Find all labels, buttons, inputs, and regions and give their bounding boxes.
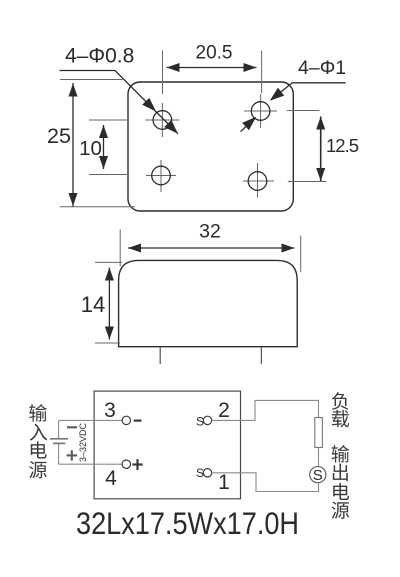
terminal 4 circle (122, 460, 130, 468)
terminal 3 circle (122, 416, 130, 424)
hole bottom-right crosshair (243, 163, 274, 198)
svg-text:32: 32 (199, 221, 221, 243)
dim 25 extension lines (60, 80, 135, 207)
label shuru-4 char 源 (29, 461, 47, 478)
battery plate short (53, 442, 65, 444)
hole top-left crosshair (146, 103, 180, 137)
svg-text:25: 25 (47, 124, 71, 148)
relay schematic box (94, 391, 240, 499)
svg-text:4: 4 (105, 467, 117, 490)
dim 12.5 extension lines (287, 111, 326, 182)
label shuchu-4 char 源 (332, 502, 350, 519)
load resistor (315, 418, 323, 448)
label shuchu-1 char 输 (332, 445, 350, 463)
label shuru-2 char 入 (30, 424, 48, 441)
svg-text:32Lx17.5Wx17.0H: 32Lx17.5Wx17.0H (76, 506, 299, 541)
wire S circle to terminal1 (212, 473, 319, 492)
label shuchu-2 char 出 (333, 464, 348, 481)
pin left (159, 347, 161, 364)
svg-text:3: 3 (104, 399, 116, 422)
leader for 4-phi0.8 (60, 71, 179, 134)
battery minus sign (67, 426, 77, 428)
label shuchu-3 char 电 (333, 483, 349, 500)
leader for 4-phi1 (272, 83, 346, 100)
label fuzai-1 char 负 (332, 392, 348, 409)
svg-text:S: S (196, 466, 204, 480)
output loop wires (212, 400, 319, 491)
svg-text:2: 2 (218, 399, 230, 422)
svg-text:20.5: 20.5 (196, 43, 233, 64)
svg-text:4–Φ0.8: 4–Φ0.8 (65, 45, 134, 68)
hole bottom-left crosshair (146, 160, 176, 192)
terminal 3 minus (134, 420, 142, 422)
svg-text:1: 1 (218, 471, 230, 494)
hole bottom-right (248, 172, 267, 191)
hole top-right crosshair (244, 94, 277, 128)
svg-text:3–32VDC: 3–32VDC (78, 422, 88, 462)
label shuru-3 char 电 (31, 441, 47, 458)
dim 20.5 extension lines (163, 51, 262, 94)
dim 32 line (128, 247, 295, 249)
hole top-right (251, 102, 270, 121)
terminal 4 plus (132, 459, 142, 470)
svg-text:4–Φ1: 4–Φ1 (298, 57, 346, 79)
pin right (260, 347, 262, 364)
svg-text:S: S (196, 414, 204, 428)
dim 32 extension lines (120, 229, 301, 272)
battery wire bottom (58, 444, 60, 464)
svg-text:S: S (313, 467, 323, 484)
relay body top-view outline (128, 82, 293, 211)
terminal 2 circle (203, 416, 211, 424)
dim 14 extension lines (95, 262, 122, 343)
battery wire top (58, 420, 60, 438)
inner pointer arrow for 4-phi1 (241, 121, 253, 132)
relay body side-view outline (119, 260, 298, 346)
svg-text:10: 10 (79, 137, 102, 160)
label shuru-1 char 输 (29, 404, 47, 422)
svg-text:14: 14 (81, 292, 105, 317)
terminal 1 circle (203, 469, 211, 477)
label fuzai-2 char 载 (332, 410, 349, 428)
dim 25 line (72, 83, 74, 207)
dim 14 line (108, 268, 110, 340)
output source S circle (310, 467, 326, 483)
hole top-left (153, 111, 172, 130)
wire resistor to S circle (318, 448, 320, 468)
battery plate long (50, 438, 68, 440)
dim 10 extension lines (89, 120, 127, 175)
input wire top (59, 419, 123, 421)
dim 20.5 line (167, 67, 257, 69)
wire terminal2 to load (212, 400, 319, 420)
svg-text:12.5: 12.5 (326, 135, 359, 156)
dim 10 line (103, 125, 105, 169)
hole bottom-left (152, 166, 171, 185)
dim 12.5 line (320, 117, 322, 182)
battery plus sign (67, 450, 78, 460)
input wire bottom (59, 463, 123, 465)
